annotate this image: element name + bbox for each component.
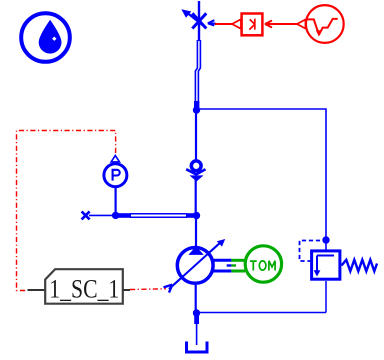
signal input arrowhead into pump [164,285,173,293]
flow source Q1 (variable orifice cross) [181,9,206,28]
wire: node A to right branch [197,109,327,240]
signal source W1 (piecewise waveform) [297,5,344,43]
wire: double horizontal line gauge node to node B [115,213,198,218]
wire: plug to gauge node [89,214,114,216]
wire: relief valve bottom to bottom line [325,281,327,313]
gain block K1 [232,14,272,36]
plug X1 (blocked port) [82,211,90,219]
pressure sensor P1 [104,156,127,187]
wire: node B down to pump inlet [195,217,197,246]
shaft pump to motor [213,260,245,271]
wire: check valve to node B [195,180,197,213]
tank T1 [187,342,208,353]
check valve CV1 [186,161,205,182]
svg-text:1_SC_1: 1_SC_1 [49,275,119,304]
wire: left stub of supercomponent [28,289,46,291]
wire: red signal from gain to flow source [215,23,232,25]
relief valve RV1 [300,240,378,279]
wire: gauge to node C [114,188,116,213]
wire: red dash-dot signal loop from sensor to supercomponent [17,131,116,291]
wire: red signal from source to gain [265,23,297,25]
node D (junction dot) [193,309,200,316]
wire: pump outlet down to node D [195,285,197,311]
signal input arrowhead into flow source [208,20,216,25]
motor TOM [245,246,281,282]
wire: node D to tank [194,316,199,345]
wire: node A down to check valve [195,112,197,162]
node A (junction dot) [193,106,200,113]
wire: right stub of supercomponent [123,289,130,291]
node E (relief valve junction dot) [322,236,329,243]
wire: top stub above flow source [198,1,200,41]
variable displacement pump PU1 [169,239,225,289]
supercomponent 1_SC_1 [45,269,123,304]
wire: main double line from flow source down to node A [194,40,200,109]
node C (gauge junction dot) [112,212,119,219]
fluid properties icon (drop logo) [21,13,70,62]
wire: bottom line node D to relief valve return [197,312,327,314]
node B (junction dot) [193,212,200,219]
wire: red dash-dot signal to pump displacement [130,288,166,291]
